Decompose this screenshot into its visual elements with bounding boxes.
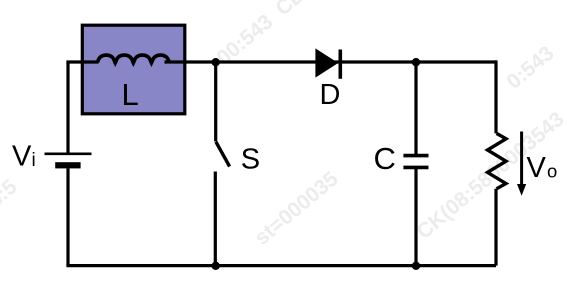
node: switch bottom junction xyxy=(212,262,220,270)
diode D: cathode bar xyxy=(338,50,342,79)
svg-text:i: i xyxy=(32,150,36,171)
svg-text:00:543 CDC: 00:543 CDC xyxy=(212,0,321,70)
capacitor C: lower wire xyxy=(414,169,417,266)
Vo arrow shaft xyxy=(520,132,523,186)
capacitor C: bottom plate xyxy=(403,166,428,170)
capacitor C: upper wire xyxy=(414,62,417,154)
node B (diode/capacitor junction) xyxy=(412,58,420,66)
switch S: blade xyxy=(216,142,230,167)
battery Vi: short thick plate xyxy=(55,162,80,168)
wire: right vertical, resistor to bottom corner xyxy=(494,189,497,266)
wire: top net, inductor end to top-right corner xyxy=(165,60,497,63)
svg-text:08:5: 08:5 xyxy=(0,175,22,220)
inductor highlight box xyxy=(82,25,185,114)
switch S: lower wire xyxy=(214,172,217,266)
battery Vi: long thin plate xyxy=(45,153,92,156)
wire: left vertical from top corner to battery xyxy=(66,62,69,154)
svg-text:0:543: 0:543 xyxy=(502,42,558,94)
svg-text:st=000035: st=000035 xyxy=(250,167,342,250)
node: capacitor bottom junction xyxy=(412,262,420,270)
svg-text:V: V xyxy=(527,152,547,184)
wire: left vertical from battery to bottom corner xyxy=(66,168,69,265)
wire: right vertical, top corner to resistor xyxy=(494,60,497,133)
diode D: triangle anode xyxy=(315,48,338,77)
wire: bottom net xyxy=(66,264,496,267)
capacitor C: top plate xyxy=(403,154,428,158)
wire: top net, left corner to inductor start xyxy=(68,60,99,62)
resistor (load) zigzag xyxy=(488,133,507,188)
inductor L (coil) xyxy=(98,55,170,63)
Vo arrow head xyxy=(517,184,526,196)
svg-text:V: V xyxy=(12,141,32,173)
svg-text:D: D xyxy=(320,79,341,111)
node A (inductor/switch/diode junction) xyxy=(212,58,220,66)
switch S: upper wire xyxy=(214,62,217,142)
svg-text:C: C xyxy=(374,141,396,176)
svg-text:L: L xyxy=(122,77,139,112)
svg-text:o: o xyxy=(547,161,557,182)
svg-text:S: S xyxy=(241,144,260,176)
